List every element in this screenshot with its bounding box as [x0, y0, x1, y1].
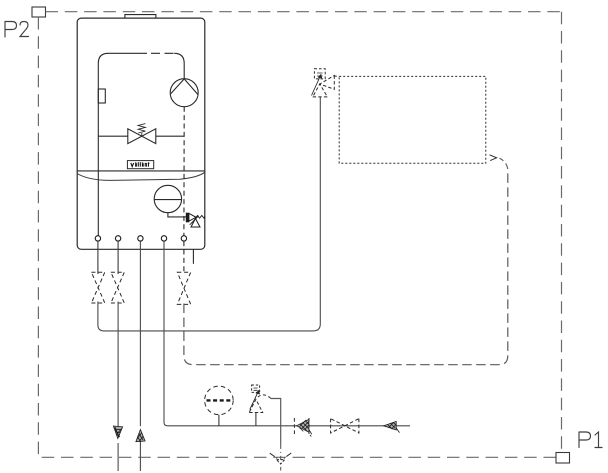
pipe line2 — [117, 241, 119, 274]
sensor tab — [98, 89, 105, 103]
inner circuit top dashes — [151, 52, 174, 54]
service valve V1 (dashed) — [91, 272, 104, 303]
connection circle 3 — [138, 236, 143, 241]
border right (dashed) — [561, 12, 563, 453]
connection circle 2 — [115, 236, 120, 241]
connection circle 5 — [181, 236, 186, 241]
discharge pipe — [271, 399, 281, 445]
safety valve SV (dashed, accessory) — [249, 385, 271, 413]
flow arrow up (hatched) — [136, 430, 145, 442]
water line tick 2 (dashed) — [308, 418, 310, 434]
expansion vessel (dashed) — [205, 386, 234, 415]
drinking water arrow (hatched, small) — [384, 421, 400, 432]
connection circle 4 — [161, 236, 166, 241]
pipe line1 upper — [97, 241, 99, 274]
water line tick 1 (dashed) — [293, 418, 295, 434]
shutoff valve (dashed bowtie) — [331, 419, 359, 433]
service valve V5 (dashed) — [177, 272, 190, 304]
vessel stub — [218, 415, 220, 426]
flow arrow down (hatched) — [113, 426, 122, 439]
heating return run (dashed) — [184, 171, 508, 365]
bypass valve spring — [138, 124, 145, 137]
pipe line3 — [139, 241, 141, 426]
vessel membrane — [207, 399, 232, 401]
boiler panel seam — [77, 172, 205, 180]
gauge stub to safety valve — [168, 213, 187, 217]
3-way valve (dashed, accessory) — [312, 69, 340, 97]
service valve V2 (dashed) — [111, 272, 124, 303]
inner circuit left vertical — [98, 53, 147, 236]
pipe line4 + cold water run — [164, 241, 410, 426]
pump U1 — [170, 79, 198, 107]
discharge dash-dot through funnel — [280, 445, 282, 471]
boiler casing — [77, 18, 205, 249]
funnel (tundish) — [270, 453, 291, 464]
bypass valve line — [98, 135, 128, 137]
boiler divider line — [77, 170, 205, 172]
label P1 — [579, 432, 602, 448]
page connector P2 — [32, 7, 46, 17]
return exit curve + arrow — [500, 158, 508, 169]
connection circle 1 — [95, 236, 100, 241]
drinking water arrow (hatched, large) — [297, 419, 312, 436]
border left (dashed) — [37, 17, 39, 457]
SV stub — [255, 413, 257, 426]
inner circuit top-right corner — [174, 53, 184, 79]
pipe line1 lower + heating supply run — [98, 97, 320, 331]
label P2 — [5, 22, 29, 38]
bypass valve body — [128, 129, 156, 144]
pipe line5 (dashed) upper — [183, 241, 185, 273]
flue stub — [125, 15, 156, 19]
dotted zone rectangle — [339, 76, 486, 163]
internal safety valve — [186, 213, 205, 227]
page connector P1 — [556, 453, 570, 464]
Vaillant logo box — [127, 161, 153, 169]
border bottom (dashed) — [38, 456, 556, 458]
safety discharge stub — [192, 249, 194, 263]
border top (dashed) — [46, 11, 562, 13]
pressure gauge — [154, 185, 181, 212]
dashed line pump to connection 5 — [183, 107, 185, 236]
